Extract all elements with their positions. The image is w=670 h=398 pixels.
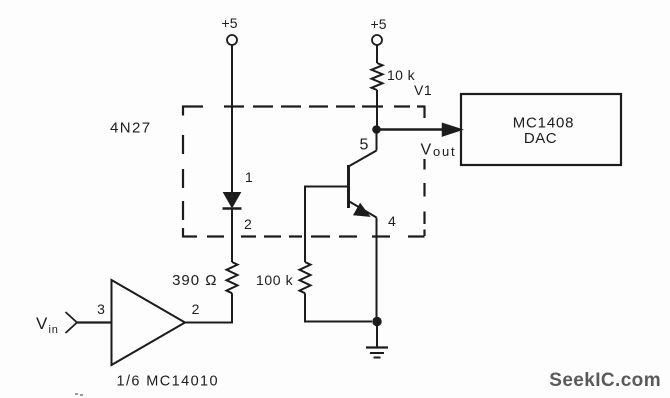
wire: R1 to buffer output <box>185 293 232 322</box>
input terminal chevron <box>66 312 78 333</box>
svg-text:+5: +5 <box>222 15 238 31</box>
svg-text:V1: V1 <box>414 82 432 98</box>
wire: R3 bottom to ground node <box>305 293 372 321</box>
svg-text:3: 3 <box>97 301 105 317</box>
svg-text:10 k: 10 k <box>387 67 416 83</box>
svg-text:1: 1 <box>245 169 253 185</box>
resistor R2 10 k <box>372 63 383 90</box>
svg-text:SeekIC.com: SeekIC.com <box>549 370 661 391</box>
svg-text:100 k: 100 k <box>256 272 294 288</box>
wire: LED cathode to resistor R1 <box>231 209 233 263</box>
label Vout <box>421 142 457 160</box>
wire: node to ground <box>376 326 378 347</box>
svg-text:+5: +5 <box>371 16 387 32</box>
optocoupler U1 4N27 dashed outline <box>183 106 425 238</box>
svg-text:in: in <box>49 324 59 336</box>
svg-text:MC1408: MC1408 <box>513 115 575 132</box>
wire: R2 to collector node <box>376 90 378 130</box>
ground <box>366 348 388 358</box>
wire: emitter down to ground node <box>376 218 378 318</box>
block U3 MC1408 DAC <box>461 94 621 165</box>
wire: right +5 to resistor R2 <box>376 45 378 63</box>
svg-text:5: 5 <box>360 137 369 154</box>
label Vin <box>36 314 59 336</box>
power terminal +5 (left) <box>222 15 238 45</box>
LED D1 (opto emitter) <box>223 193 242 209</box>
wire: collector node to DAC (arrow) <box>377 124 462 136</box>
resistor R1 390 ohm <box>227 262 238 293</box>
svg-text:4: 4 <box>388 213 396 229</box>
svg-text:DAC: DAC <box>524 130 557 147</box>
wire: Vin input <box>77 321 112 323</box>
svg-text:V: V <box>421 142 432 159</box>
svg-text:2: 2 <box>192 301 200 317</box>
buffer U2 1/6 MC14010 <box>112 280 186 365</box>
svg-text:V: V <box>36 314 48 333</box>
wire: base to 100k resistor <box>305 187 347 263</box>
speck (scan artifact) <box>75 393 83 396</box>
svg-text:390 Ω: 390 Ω <box>172 272 217 289</box>
svg-text:4N27: 4N27 <box>110 120 151 137</box>
svg-text:2: 2 <box>244 216 252 232</box>
wire: left +5 to LED anode <box>231 45 233 193</box>
node A (collector junction) <box>372 125 381 134</box>
resistor R3 100 k <box>300 262 311 293</box>
phototransistor Q1 <box>349 133 377 218</box>
svg-text:1/6 MC14010: 1/6 MC14010 <box>117 374 219 390</box>
svg-text:out: out <box>433 144 456 159</box>
power terminal +5 (right) <box>371 16 387 45</box>
node B (emitter/ground junction) <box>372 317 381 326</box>
